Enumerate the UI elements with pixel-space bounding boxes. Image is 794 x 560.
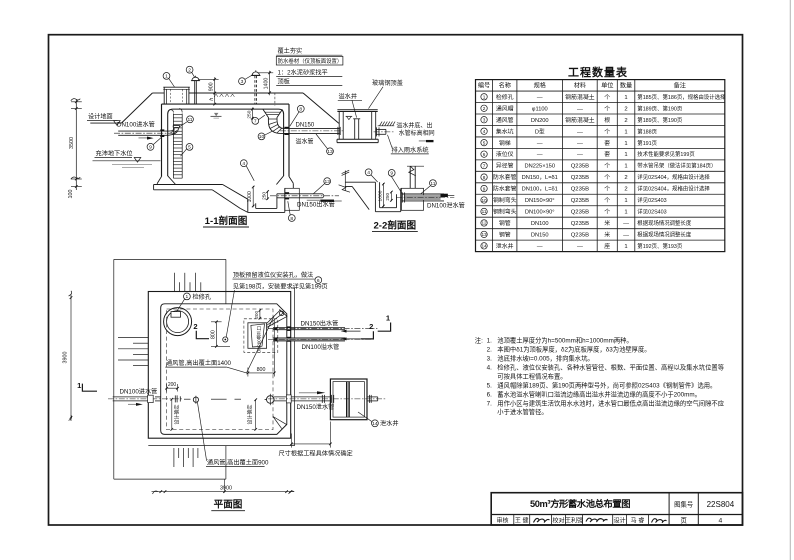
svg-text:2: 2 bbox=[624, 106, 627, 112]
dim 1400 vent height bbox=[258, 71, 275, 106]
svg-text:编号: 编号 bbox=[478, 82, 490, 90]
roof layer labels bbox=[276, 47, 343, 86]
outlet pipe DN150 bbox=[270, 192, 339, 199]
svg-text:图集号: 图集号 bbox=[674, 500, 693, 509]
svg-text:个: 个 bbox=[604, 163, 610, 170]
ground right of well bbox=[378, 122, 395, 126]
excavation outline rect (stepped) bbox=[114, 259, 226, 479]
svg-text:顶板: 顶板 bbox=[278, 78, 290, 86]
tank inner wall face plan bbox=[161, 304, 287, 435]
svg-text:Q235B: Q235B bbox=[571, 198, 589, 204]
dim 250 funnel below roof bbox=[246, 108, 253, 120]
table row 9: 防水套管 bbox=[481, 185, 711, 193]
svg-text:Q235B: Q235B bbox=[571, 210, 589, 216]
vent cap 3 (right vent, dashed DN200) bbox=[251, 70, 260, 104]
label circle 3 vent pipe bbox=[239, 78, 246, 85]
to rainwater system label bbox=[388, 135, 429, 154]
svg-text:设计确定: 设计确定 bbox=[246, 404, 253, 424]
svg-text:—: — bbox=[623, 233, 629, 239]
design-determined dim left bbox=[171, 398, 181, 431]
svg-text:—: — bbox=[577, 244, 583, 250]
inner dashed rect plan bbox=[167, 309, 273, 430]
svg-text:米: 米 bbox=[604, 231, 610, 239]
tank outer wall rect plan bbox=[148, 292, 290, 439]
label circle 8 outlet sleeve bbox=[288, 215, 295, 222]
svg-text:详见02S403: 详见02S403 bbox=[637, 196, 666, 204]
svg-text:1000: 1000 bbox=[247, 191, 253, 202]
svg-text:详见02S404，规格由设计选择: 详见02S404，规格由设计选择 bbox=[637, 173, 710, 181]
svg-text:防水套管: 防水套管 bbox=[493, 185, 517, 193]
svg-text:250: 250 bbox=[261, 192, 267, 200]
svg-text:第188页: 第188页 bbox=[637, 127, 657, 135]
svg-text:2: 2 bbox=[369, 322, 373, 331]
svg-text:4: 4 bbox=[242, 161, 245, 167]
svg-text:4: 4 bbox=[483, 129, 486, 134]
svg-text:小于进水管管径。: 小于进水管管径。 bbox=[497, 407, 547, 416]
svg-text:2: 2 bbox=[624, 118, 627, 124]
title block frame bbox=[491, 493, 742, 525]
table row 5: 钢梯 bbox=[481, 139, 658, 147]
groundwater level label bbox=[95, 150, 141, 163]
svg-text:2: 2 bbox=[624, 175, 627, 181]
svg-text:钢制弯头: 钢制弯头 bbox=[493, 208, 517, 216]
slope hatch top bbox=[175, 273, 201, 292]
svg-text:钢筋混凝土: 钢筋混凝土 bbox=[565, 116, 595, 124]
dim 1000 sump depth bbox=[247, 186, 254, 208]
svg-text:DN150: DN150 bbox=[296, 122, 315, 128]
sump pit section bbox=[240, 188, 285, 212]
svg-text:200: 200 bbox=[254, 311, 259, 319]
svg-text:个: 个 bbox=[604, 174, 610, 181]
flow arrow drain bbox=[299, 391, 325, 394]
svg-text:1：2水泥砂浆找平: 1：2水泥砂浆找平 bbox=[278, 68, 328, 76]
svg-text:溢水井: 溢水井 bbox=[339, 92, 358, 100]
drain pipe DN100 2-2 bbox=[396, 192, 454, 202]
svg-text:1.: 1. bbox=[487, 337, 493, 344]
svg-text:覆土夯实: 覆土夯实 bbox=[278, 47, 303, 55]
svg-text:1: 1 bbox=[483, 95, 486, 100]
svg-text:DN225×150: DN225×150 bbox=[524, 164, 555, 170]
svg-text:200: 200 bbox=[168, 382, 177, 388]
svg-text:—: — bbox=[577, 129, 583, 135]
well water level bbox=[346, 116, 353, 119]
pipe encasement block bbox=[401, 188, 423, 210]
svg-text:8: 8 bbox=[290, 216, 293, 222]
svg-text:通风帽除第189页、第190页两种型号外，尚可参照02S40: 通风帽除第189页、第190页两种型号外，尚可参照02S403《钢制管件》选用。 bbox=[497, 380, 716, 389]
table row 11: 钢制弯头 bbox=[481, 208, 667, 216]
label circle 9 inlet sleeve bbox=[147, 143, 154, 150]
svg-text:材料: 材料 bbox=[574, 82, 586, 90]
title block verticals bottom row bbox=[514, 515, 649, 526]
section mark 1 left bbox=[77, 381, 97, 391]
svg-text:集水坑: 集水坑 bbox=[496, 127, 514, 135]
svg-text:2: 2 bbox=[193, 322, 197, 331]
overflow well label bbox=[338, 92, 362, 117]
svg-text:1400: 1400 bbox=[264, 78, 270, 90]
dim 3900 left bbox=[62, 291, 72, 421]
svg-text:DN150泄水管: DN150泄水管 bbox=[297, 403, 335, 411]
svg-text:6.: 6. bbox=[487, 391, 493, 398]
svg-text:可按具体工程情况布置。: 可按具体工程情况布置。 bbox=[497, 371, 566, 380]
svg-text:设计: 设计 bbox=[614, 516, 626, 524]
svg-text:防水卷材（仅顶板面设置）: 防水卷材（仅顶板面设置） bbox=[278, 57, 343, 65]
svg-text:—: — bbox=[537, 244, 543, 250]
svg-text:14: 14 bbox=[481, 244, 487, 249]
label circle 11 elbow 2-2 bbox=[430, 180, 437, 187]
svg-text:3500: 3500 bbox=[69, 137, 75, 149]
flow arrows right of pipes bbox=[341, 330, 361, 341]
general notes bbox=[475, 335, 633, 344]
dim 1000 sump 2-2 bbox=[377, 183, 384, 208]
plan title bbox=[211, 500, 245, 511]
inlet elbow up with bell bbox=[166, 126, 180, 136]
svg-text:8: 8 bbox=[299, 107, 302, 113]
scan edge artifact line bbox=[789, 0, 791, 560]
svg-text:DN100×90°: DN100×90° bbox=[525, 210, 555, 216]
internal water level mark bbox=[211, 113, 222, 118]
svg-text:1: 1 bbox=[186, 294, 189, 300]
table row 1: 检修孔 bbox=[481, 93, 726, 101]
svg-text:4.: 4. bbox=[487, 364, 493, 371]
svg-text:h: h bbox=[209, 98, 215, 101]
svg-text:13: 13 bbox=[481, 232, 487, 237]
svg-text:根据现场情况调整长度: 根据现场情况调整长度 bbox=[637, 231, 692, 239]
svg-text:DN100: DN100 bbox=[531, 221, 549, 227]
svg-text:1: 1 bbox=[624, 152, 627, 158]
svg-text:第191页: 第191页 bbox=[637, 139, 657, 147]
svg-text:蓄水池溢水管喇叭口溢流边缘高出溢水井溢流边缘的高度不小于20: 蓄水池溢水管喇叭口溢流边缘高出溢水井溢流边缘的高度不小于200mm。 bbox=[497, 389, 701, 398]
svg-text:水管标高相同: 水管标高相同 bbox=[399, 129, 435, 137]
slope hatch bottom bbox=[174, 448, 198, 467]
table row 7: 异径管 bbox=[481, 162, 717, 170]
vent pipe 900 plan bbox=[193, 396, 198, 404]
svg-text:钢管: 钢管 bbox=[499, 231, 511, 239]
svg-text:审核: 审核 bbox=[496, 516, 508, 524]
drawing sheet border frame bbox=[49, 35, 743, 525]
overflow funnel plan bbox=[244, 310, 287, 353]
svg-text:检修孔、液位仪安装孔、各种水管管径、根数、平面位置、高程以及: 检修孔、液位仪安装孔、各种水管管径、根数、平面位置、高程以及集水坑位置等 bbox=[497, 362, 724, 371]
svg-text:用作小区与建筑生活饮用水水池时，进水管口最低点高出溢流边缘的: 用作小区与建筑生活饮用水水池时，进水管口最低点高出溢流边缘的空气间隙不应 bbox=[497, 398, 724, 407]
svg-text:—: — bbox=[623, 221, 629, 227]
title block verticals top row bbox=[668, 493, 670, 525]
flow arrow inlet plan bbox=[128, 403, 143, 406]
svg-text:φ1100: φ1100 bbox=[532, 106, 548, 112]
svg-text:通风帽: 通风帽 bbox=[496, 104, 514, 112]
svg-text:1: 1 bbox=[165, 74, 168, 80]
discharge arrow bbox=[419, 140, 434, 142]
svg-text:Q235B: Q235B bbox=[571, 175, 589, 181]
svg-text:设计地面: 设计地面 bbox=[88, 113, 113, 121]
svg-text:王利强: 王利强 bbox=[565, 516, 583, 524]
svg-text:800: 800 bbox=[210, 330, 216, 339]
svg-text:第189页、第190页: 第189页、第190页 bbox=[637, 104, 683, 112]
dim 200 funnel bbox=[254, 309, 261, 319]
svg-text:—: — bbox=[537, 141, 543, 147]
base slab bbox=[154, 185, 223, 190]
svg-text:DN100泄水管: DN100泄水管 bbox=[427, 201, 465, 209]
svg-text:钢梯: 钢梯 bbox=[499, 139, 511, 147]
svg-text:检修孔: 检修孔 bbox=[496, 93, 514, 101]
outlet pipe block bbox=[285, 188, 300, 210]
design ground label bbox=[87, 113, 120, 126]
svg-text:1: 1 bbox=[624, 164, 627, 170]
svg-text:泄水井: 泄水井 bbox=[380, 420, 399, 428]
svg-text:11: 11 bbox=[482, 209, 487, 214]
svg-text:7.: 7. bbox=[487, 400, 493, 407]
svg-text:个: 个 bbox=[604, 94, 610, 101]
label circle 14 drain well bbox=[358, 412, 399, 428]
liquid level gauge hole bbox=[223, 337, 228, 342]
svg-text:本图中δ1为顶板厚度，δ2为底板厚度，δ3为池壁厚度。: 本图中δ1为顶板厚度，δ2为底板厚度，δ3为池壁厚度。 bbox=[497, 344, 650, 353]
svg-text:技术性能要求见第199页: 技术性能要求见第199页 bbox=[637, 150, 695, 158]
drain bell mouth plan bbox=[265, 394, 275, 405]
svg-text:2: 2 bbox=[624, 187, 627, 193]
svg-text:异径管: 异径管 bbox=[496, 162, 514, 170]
svg-text:—: — bbox=[577, 152, 583, 158]
svg-text:8: 8 bbox=[483, 175, 486, 180]
svg-text:个: 个 bbox=[604, 197, 610, 204]
svg-text:6: 6 bbox=[483, 152, 486, 157]
svg-text:9: 9 bbox=[149, 145, 152, 151]
label circle 1 manhole bbox=[163, 73, 170, 80]
svg-text:校对: 校对 bbox=[552, 516, 564, 524]
svg-text:13: 13 bbox=[327, 149, 333, 155]
svg-text:9: 9 bbox=[390, 171, 393, 177]
svg-text:—: — bbox=[537, 152, 543, 158]
svg-text:DN200: DN200 bbox=[531, 118, 549, 124]
well standpipe bbox=[353, 119, 360, 139]
section mark 2 top bbox=[193, 322, 209, 339]
outlet pipe DN150 plan bbox=[268, 326, 377, 331]
svg-text:3.: 3. bbox=[487, 355, 493, 362]
svg-text:DN100溢水管: DN100溢水管 bbox=[302, 343, 340, 351]
svg-text:平面图: 平面图 bbox=[214, 500, 243, 511]
svg-text:溢水管: 溢水管 bbox=[296, 138, 314, 146]
svg-text:1-1剖面图: 1-1剖面图 bbox=[205, 215, 248, 227]
svg-text:米: 米 bbox=[604, 219, 610, 227]
sump pit 2-2 bbox=[375, 182, 400, 212]
section cut dashes 1-1 bbox=[184, 398, 241, 400]
svg-text:11: 11 bbox=[187, 117, 192, 123]
dim 250 outlet depth bbox=[261, 190, 269, 200]
label circle 7 reducer bbox=[252, 118, 259, 125]
label circle 6 gauge bbox=[315, 277, 322, 284]
svg-text:个: 个 bbox=[604, 128, 610, 135]
drain well plan bbox=[330, 379, 377, 420]
svg-text:1: 1 bbox=[624, 95, 627, 101]
table row 3: 通风管 bbox=[481, 116, 683, 124]
svg-text:通风管: 通风管 bbox=[496, 116, 514, 124]
svg-text:6: 6 bbox=[317, 278, 320, 284]
svg-text:DN150: DN150 bbox=[531, 233, 549, 239]
svg-text:钢制弯头: 钢制弯头 bbox=[493, 196, 517, 204]
wall feet haunches bbox=[157, 176, 293, 189]
flow arrow inlet bbox=[139, 137, 154, 140]
table row 2: 通风帽 bbox=[481, 104, 683, 112]
svg-text:顶板预留液位仪安装孔，做法: 顶板预留液位仪安装孔，做法 bbox=[233, 271, 313, 279]
label circle 1 manhole plan bbox=[177, 293, 211, 312]
svg-text:详见02S404，规格由设计选择: 详见02S404，规格由设计选择 bbox=[637, 185, 710, 193]
svg-text:1: 1 bbox=[624, 129, 627, 135]
break marks left bbox=[339, 170, 350, 192]
tank inner face (rounded) bbox=[168, 109, 284, 176]
svg-text:玻璃钢顶盖: 玻璃钢顶盖 bbox=[372, 79, 403, 87]
tank outer walls bbox=[161, 104, 163, 176]
svg-text:充沛地下水位: 充沛地下水位 bbox=[96, 150, 133, 158]
svg-text:注:: 注: bbox=[475, 335, 483, 344]
svg-text:9: 9 bbox=[483, 186, 486, 191]
svg-text:套: 套 bbox=[604, 139, 610, 147]
vent cap 2 (left vent) bbox=[191, 76, 200, 104]
svg-text:900: 900 bbox=[209, 82, 215, 91]
elevation dimension line left bbox=[71, 99, 82, 190]
svg-text:池底排水坡i=0.005，排向集水坑。: 池底排水坡i=0.005，排向集水坑。 bbox=[497, 353, 593, 362]
ground slope down right bbox=[303, 93, 339, 123]
svg-text:检修孔: 检修孔 bbox=[193, 293, 212, 301]
section 1-1 title bbox=[203, 215, 249, 227]
ground over roof bbox=[152, 92, 164, 94]
table row 13: 钢管 bbox=[481, 231, 692, 239]
slab edge lines right/bottom bbox=[148, 288, 294, 446]
dim 250 pipe 2-2 bbox=[385, 191, 393, 202]
svg-text:王 健: 王 健 bbox=[515, 516, 529, 524]
table row 12: 钢管 bbox=[481, 219, 692, 227]
label circle 11 inlet elbow bbox=[187, 116, 194, 123]
svg-text:1: 1 bbox=[624, 198, 627, 204]
svg-text:3900: 3900 bbox=[62, 352, 68, 364]
svg-text:4: 4 bbox=[367, 170, 370, 176]
floor slope to sump bbox=[223, 185, 248, 200]
dim 800 vertical bbox=[210, 321, 230, 348]
svg-text:D型: D型 bbox=[535, 127, 545, 135]
svg-text:22S804: 22S804 bbox=[707, 500, 735, 509]
svg-text:7: 7 bbox=[254, 119, 257, 125]
svg-text:DN150出水管: DN150出水管 bbox=[297, 201, 335, 209]
svg-text:250: 250 bbox=[385, 193, 390, 201]
svg-text:3900: 3900 bbox=[220, 486, 232, 492]
svg-text:DN150×90°: DN150×90° bbox=[525, 198, 555, 204]
svg-text:个: 个 bbox=[604, 209, 610, 216]
svg-text:根: 根 bbox=[604, 116, 610, 124]
tank roof slab bbox=[162, 103, 290, 105]
svg-text:溢水井底、出: 溢水井底、出 bbox=[396, 122, 432, 130]
design-determined dim right bbox=[246, 398, 257, 430]
dim 3900 bottom bbox=[152, 479, 295, 494]
overflow funnel inside tank bbox=[263, 109, 284, 133]
vent 1400 label bbox=[165, 316, 274, 373]
dim well spacing bbox=[279, 422, 353, 458]
svg-text:5: 5 bbox=[483, 140, 486, 145]
svg-text:12: 12 bbox=[481, 221, 487, 226]
svg-text:马 睿: 马 睿 bbox=[631, 516, 645, 524]
svg-text:10: 10 bbox=[481, 198, 487, 203]
svg-text:DN100，L=δ1: DN100，L=δ1 bbox=[522, 187, 558, 193]
label circle 13 outlet pipe bbox=[324, 178, 331, 185]
svg-text:尺寸根据工程具体情况确定: 尺寸根据工程具体情况确定 bbox=[279, 450, 353, 458]
ground slope up bbox=[121, 93, 152, 123]
svg-text:10: 10 bbox=[259, 134, 265, 140]
svg-text:设计确定: 设计确定 bbox=[173, 404, 180, 424]
svg-text:14: 14 bbox=[372, 421, 378, 427]
dim 200 inlet bbox=[165, 382, 179, 391]
bottom row: reviewers and page bbox=[496, 516, 722, 524]
label circle 10 overflow elbow bbox=[258, 133, 265, 140]
floor slab 2-2 bbox=[345, 182, 375, 209]
label circle 4 sump 2-2 bbox=[365, 169, 372, 176]
svg-text:通风管,高出覆土面1400: 通风管,高出覆土面1400 bbox=[166, 359, 232, 367]
svg-text:座: 座 bbox=[604, 242, 610, 250]
svg-text:钢筋混凝土: 钢筋混凝土 bbox=[565, 93, 595, 101]
svg-text:4: 4 bbox=[719, 517, 723, 524]
overflow well (section) bbox=[337, 110, 378, 143]
svg-text:2-2剖面图: 2-2剖面图 bbox=[373, 220, 416, 232]
dim 900 vent height bbox=[198, 77, 219, 95]
overflow pipe DN100 plan (grey) bbox=[268, 337, 373, 342]
vent 900 label bbox=[197, 402, 269, 467]
svg-text:—: — bbox=[577, 106, 583, 112]
table row 4: 集水坑 bbox=[481, 127, 658, 135]
overflow pipe to well bbox=[280, 127, 344, 135]
svg-text:钢管: 钢管 bbox=[499, 219, 511, 227]
label circle 2 vent bbox=[186, 66, 193, 73]
svg-text:100: 100 bbox=[68, 190, 74, 199]
svg-text:DN100进水管: DN100进水管 bbox=[120, 388, 158, 396]
svg-text:DN150，L=δ1: DN150，L=δ1 bbox=[522, 175, 558, 181]
svg-text:排入雨水系统: 排入雨水系统 bbox=[392, 146, 429, 154]
svg-text:备注: 备注 bbox=[674, 82, 686, 90]
dim h roof cover bbox=[209, 93, 216, 105]
fiberglass cover label bbox=[369, 79, 403, 109]
manhole U1 section bbox=[163, 87, 190, 104]
gauge hole note + leader bbox=[226, 271, 328, 337]
sump corner fan bottom-right bbox=[273, 417, 287, 435]
svg-text:详见02S403: 详见02S403 bbox=[637, 208, 666, 216]
table header row bbox=[478, 82, 686, 90]
svg-text:名称: 名称 bbox=[499, 82, 511, 90]
svg-text:防水套管: 防水套管 bbox=[493, 173, 517, 181]
svg-text:通风管,高出覆土面900: 通风管,高出覆土面900 bbox=[207, 459, 269, 467]
svg-text:页: 页 bbox=[681, 516, 687, 524]
vent 1400 circle bbox=[279, 311, 283, 315]
svg-text:250: 250 bbox=[246, 110, 252, 118]
table row 8: 防水套管 bbox=[481, 173, 711, 181]
svg-text:第189页、第190页: 第189页、第190页 bbox=[637, 116, 683, 124]
earth hatch marks bbox=[214, 94, 234, 97]
slope hatch left bbox=[118, 338, 148, 366]
svg-text:—: — bbox=[537, 95, 543, 101]
ground surface line bbox=[90, 122, 121, 124]
svg-text:DN100进水管: DN100进水管 bbox=[117, 120, 155, 128]
well inlet flange bbox=[338, 127, 340, 135]
section 2-2 title bbox=[372, 220, 418, 232]
drain pipe DN150 plan bbox=[268, 395, 386, 403]
svg-text:1: 1 bbox=[624, 210, 627, 216]
flow arrow outlet bbox=[307, 199, 321, 201]
label circle 13 overflow pipe bbox=[327, 148, 334, 155]
svg-text:第185页、第186页，规格由设计选择: 第185页、第186页，规格由设计选择 bbox=[637, 93, 726, 101]
svg-text:2: 2 bbox=[188, 67, 191, 73]
svg-text:13: 13 bbox=[324, 179, 330, 185]
dim 800 horizontal bbox=[247, 320, 276, 377]
svg-text:数量: 数量 bbox=[620, 82, 632, 90]
svg-text:见第198页，安装要求详见第199页: 见第198页，安装要求详见第199页 bbox=[233, 282, 328, 290]
svg-text:工程数量表: 工程数量表 bbox=[568, 65, 628, 79]
svg-text:Q235B: Q235B bbox=[571, 233, 589, 239]
svg-text:Q235B: Q235B bbox=[571, 164, 589, 170]
well outlet pipe bbox=[374, 127, 395, 136]
svg-text:2: 2 bbox=[483, 106, 486, 111]
svg-text:1: 1 bbox=[624, 141, 627, 147]
